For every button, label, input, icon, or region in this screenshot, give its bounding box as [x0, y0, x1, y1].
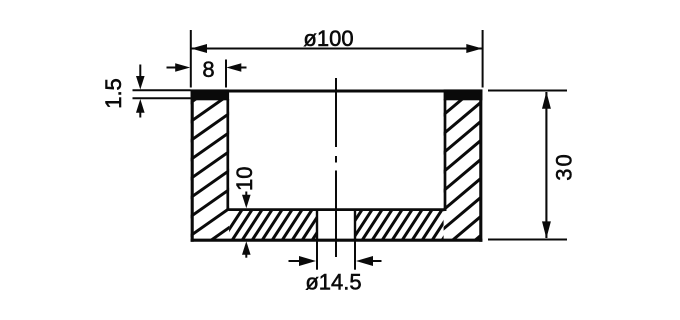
dimension 1.5 : top leader and arrowhead [139, 65, 141, 79]
centerline [335, 78, 337, 257]
svg-text:ø100: ø100 [303, 26, 353, 51]
top edge [191, 89, 483, 92]
dimension 1.5 : bottom leader and arrowhead [139, 110, 141, 118]
hatch left wall [180, 68, 240, 262]
dimension 30 : dimension line [545, 92, 547, 238]
dimension ø100 : left arrowhead [191, 44, 207, 53]
left inner edge [226, 99, 229, 211]
dimension 30 : extension lines [488, 91, 567, 240]
dimension 8 : extension line [225, 60, 227, 88]
left outer edge [191, 90, 194, 242]
hole left edge [316, 210, 318, 240]
hatch floor [219, 199, 469, 245]
svg-text:ø14.5: ø14.5 [305, 269, 361, 294]
dimension 10 : bottom leader and arrowhead [245, 251, 247, 258]
dimension ø14.5 : extension lines [317, 240, 355, 270]
right outer edge [479, 90, 482, 242]
hole right edge [354, 210, 356, 240]
bottom edge [191, 239, 483, 242]
dimension ø14.5 : right leader and arrowhead [372, 260, 382, 262]
hatch right wall [435, 74, 492, 274]
svg-text:10: 10 [232, 166, 257, 190]
right inner edge [444, 99, 447, 211]
svg-text:30: 30 [551, 152, 576, 180]
svg-text:1.5: 1.5 [101, 78, 126, 109]
dimension ø100 : dimension line [192, 47, 483, 49]
cavity floor top edge [226, 208, 446, 211]
dimension 8 : right leader and arrowhead [239, 67, 247, 69]
dimension ø100 : extension lines [191, 30, 483, 88]
lip seal right (black) [444, 89, 483, 100]
dimension 30 : bottom arrowhead [542, 221, 551, 238]
svg-text:8: 8 [202, 57, 214, 82]
dimension 8 : left leader and arrowhead [167, 67, 179, 69]
dimension ø14.5 : left leader and arrowhead [289, 260, 301, 262]
dimension 30 : top arrowhead [542, 92, 551, 109]
part outline [191, 90, 483, 242]
dimension 1.5 : extension lines [133, 90, 191, 98]
dimension 10 : top leader and arrowhead [245, 192, 247, 198]
lip seal left (black) [191, 89, 230, 100]
dimension ø100 : right arrowhead [466, 44, 482, 53]
